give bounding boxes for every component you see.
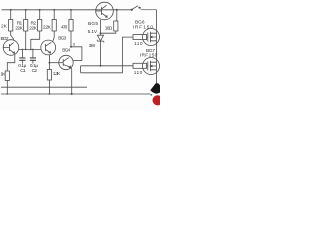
wire BG1 emitter down-left to 1K: [7, 55, 15, 71]
svg-text:BG5: BG5: [88, 21, 98, 27]
switch contact: [139, 7, 141, 8]
wire 1K lead to bottom rails: [6, 81, 8, 95]
wire gate line BG6 (line3): [81, 37, 133, 73]
svg-text:5.1V: 5.1V: [88, 29, 98, 35]
svg-text:BG3: BG3: [58, 36, 66, 42]
svg-text:R2: R2: [31, 20, 37, 26]
wire stub R 2.2K: [53, 10, 55, 20]
wire R1 lead down: [25, 31, 27, 49]
wire top rail right: [141, 9, 157, 11]
transistor BG3: [41, 40, 56, 55]
node dot BG4 base: [49, 62, 51, 64]
wire bottom rail A: [1, 86, 87, 88]
wire 1.3K lead to bottom rails: [48, 80, 50, 94]
wire stub 10ohm: [116, 10, 118, 21]
wire 10ohm to zener node: [101, 31, 116, 33]
svg-text:10Ω: 10Ω: [105, 26, 113, 32]
watermark speck: [151, 94, 153, 96]
svg-text:BG4: BG4: [62, 47, 70, 53]
resistor 10ohm: [114, 21, 118, 31]
svg-text:110: 110: [134, 70, 143, 76]
svg-text:1.3K: 1.3K: [53, 71, 61, 77]
zener diode 5.1V 3W: [97, 35, 104, 42]
wire stub R1: [25, 10, 27, 20]
wire base bus y49.4: [19, 48, 41, 50]
wire BG4 base: [49, 62, 63, 64]
svg-text:IRF150: IRF150: [140, 53, 158, 59]
resistor 110 upper: [133, 35, 147, 40]
wire bottom rail B: [1, 93, 151, 95]
resistor 2K: [9, 20, 13, 32]
wire gate BG6: [147, 36, 148, 38]
wire top rail: [2, 9, 134, 11]
wire gate BG7: [147, 65, 148, 67]
svg-text:C2: C2: [32, 68, 38, 74]
wire R2 L-wire: [31, 31, 40, 49]
wire 2K to BG1 collector: [11, 31, 14, 40]
node dots bottom: [7, 93, 9, 95]
capacitor C1: [19, 58, 25, 60]
transistor BG4: [59, 55, 73, 69]
wire BG3 emitter down to 1.3K: [48, 55, 50, 70]
svg-text:3W: 3W: [89, 43, 96, 49]
svg-text:BG6: BG6: [135, 19, 145, 25]
node dot zener gate line: [100, 65, 102, 67]
watermark logo swoosh: [150, 83, 160, 94]
svg-text:C1: C1: [20, 68, 26, 74]
capacitor C2 top lead: [32, 49, 34, 58]
wire zener to gate line: [100, 41, 102, 66]
wire gate line BG7 (line2): [81, 66, 133, 73]
wire stub R 470: [70, 10, 72, 20]
capacitor C2: [30, 58, 36, 60]
svg-text:110: 110: [134, 41, 143, 47]
resistor 1.3K: [47, 70, 51, 81]
resistor 2.2K: [52, 20, 56, 32]
wire BG5 lead down to zener: [100, 20, 102, 36]
svg-text:3: 3: [73, 41, 76, 46]
svg-text:22K: 22K: [29, 26, 37, 32]
wire 470 lead down: [70, 31, 72, 47]
wire BG4 emitter down to rail A: [70, 67, 73, 94]
resistor 110 lower: [133, 63, 147, 68]
transistor BG1: [3, 40, 19, 56]
svg-text:470: 470: [61, 25, 68, 31]
capacitor C1 top lead: [21, 49, 23, 58]
svg-text:R1: R1: [17, 20, 23, 26]
node dot zener 10ohm: [100, 32, 102, 34]
wire stub R2: [39, 10, 41, 20]
transistor BG5: [96, 2, 114, 20]
mosfet BG7: [143, 58, 160, 75]
resistor R2: [38, 20, 42, 32]
wire right trunk: [156, 10, 158, 90]
wire 2.2K to BG3 collector: [53, 31, 55, 42]
svg-text:1K: 1K: [1, 72, 7, 78]
resistor 470: [69, 20, 73, 32]
svg-text:22K: 22K: [15, 26, 23, 32]
node dots bus: [22, 49, 24, 51]
svg-text:BG2: BG2: [1, 36, 9, 42]
switch K: [132, 6, 138, 10]
resistor R1: [24, 20, 28, 32]
resistor 1K: [5, 71, 9, 81]
wire 470 node to drive trunk: [71, 47, 82, 61]
svg-text:2.2K: 2.2K: [43, 25, 52, 31]
node dot 470: [70, 46, 72, 48]
node dots top rail: [10, 9, 12, 11]
svg-text:IRF150: IRF150: [133, 25, 154, 31]
watermark logo red ball: [153, 95, 163, 105]
svg-text:2K: 2K: [1, 24, 8, 30]
wire BG4 collector to trunk: [73, 60, 82, 62]
mosfet BG6: [143, 29, 160, 46]
wire stub R 2K: [10, 10, 12, 20]
